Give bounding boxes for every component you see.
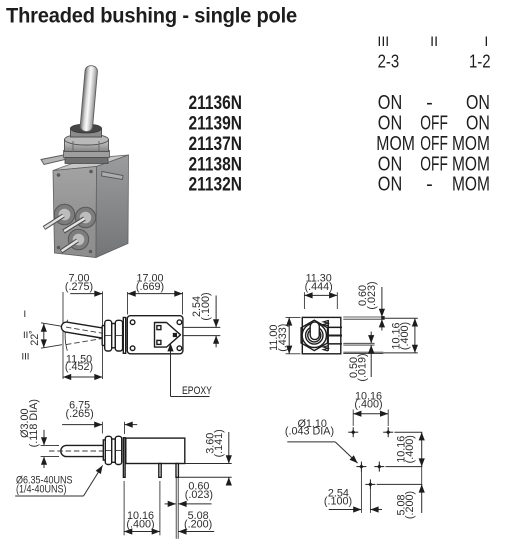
svg-text:(.444): (.444)	[305, 281, 333, 293]
svg-text:(.400): (.400)	[404, 435, 416, 463]
svg-text:(.400): (.400)	[399, 322, 411, 350]
bushing nut 1	[105, 436, 111, 464]
toggle lever (position I)	[61, 322, 103, 338]
dimension 2.54 (.100) vertical	[215, 296, 217, 328]
photo: mounting bracket arm right	[102, 172, 124, 180]
dimension 10.16 (.400) right	[414, 318, 416, 353]
product photo: toggle switch	[41, 65, 129, 257]
svg-text:OFF: OFF	[420, 112, 448, 134]
terminal square top	[157, 326, 161, 330]
extension line at body rear	[182, 292, 184, 315]
body bottom reference line to dimension	[383, 352, 418, 354]
dimension 10.16 (.400) top	[352, 410, 354, 427]
hole bottom-center	[365, 479, 375, 489]
hole mid-right	[374, 462, 384, 472]
22 degree dimension arrows	[43, 324, 45, 348]
hole reference line mid-right	[386, 466, 423, 468]
pin 2	[159, 464, 161, 478]
hole diameter leader line	[287, 441, 335, 443]
hole reference line bottom	[377, 483, 423, 485]
bushing washer	[102, 326, 105, 346]
lever throw arc	[65, 320, 67, 351]
terminal 2 lug (pair of lines)	[343, 342, 374, 344]
photo: solder pin 1	[44, 216, 64, 229]
svg-text:(1/4-40UNS): (1/4-40UNS)	[16, 484, 67, 496]
terminal row reference line lower	[183, 335, 220, 337]
body screw hole bottom-left	[130, 346, 135, 351]
dimension 5.08 (.200) right vertical	[421, 467, 423, 485]
mounting plate / pin 1	[123, 438, 125, 478]
bushing nut 2	[115, 436, 121, 464]
svg-text:OFF: OFF	[420, 133, 448, 155]
svg-text:MOM: MOM	[376, 133, 415, 155]
threaded bushing section	[103, 440, 106, 460]
body screw hole bottom-right	[177, 346, 182, 351]
lever centerline position III (dashed)	[66, 336, 119, 345]
svg-text:III: III	[21, 351, 29, 362]
terminal 3 lug (pair of lines)	[343, 351, 383, 353]
body screw hole top-right	[177, 320, 182, 325]
spine locking teeth top	[323, 321, 328, 326]
svg-text:I: I	[484, 34, 488, 50]
svg-text:(.669): (.669)	[136, 281, 164, 293]
svg-text:(.100): (.100)	[200, 292, 212, 320]
dimension diameter 3.00 (.118 DIA) lever	[41, 444, 59, 446]
svg-text:1-2: 1-2	[469, 51, 491, 72]
svg-text:(.400): (.400)	[126, 518, 154, 530]
svg-text:I: I	[23, 309, 26, 320]
photo: solder pin 3	[61, 241, 78, 252]
terminal square bottom	[157, 340, 161, 344]
PCB HOLE PATTERN drawing (bottom-right)	[285, 391, 422, 520]
svg-text:MOM: MOM	[452, 133, 490, 155]
body screw hole top-left	[130, 320, 135, 325]
svg-text:MOM: MOM	[452, 174, 490, 196]
pin end reference line	[179, 476, 232, 478]
pin 3 extension lines down	[175, 477, 177, 539]
svg-text:21139N: 21139N	[189, 112, 243, 134]
terminal bar 3	[328, 343, 342, 345]
svg-text:III: III	[377, 34, 389, 50]
lever (top view, capsule)	[310, 322, 319, 340]
svg-text:21137N: 21137N	[189, 133, 243, 155]
photo: washer stack	[64, 151, 110, 158]
terminal 1 reference line to dimension	[385, 317, 418, 319]
dimension 2.54 (.100)	[360, 471, 362, 513]
22 degree throw: lower extension line	[41, 345, 62, 349]
SIDE VIEW drawing	[21, 273, 220, 397]
svg-text:22˚: 22˚	[29, 330, 41, 346]
svg-text:21138N: 21138N	[189, 153, 243, 175]
svg-text:2-3: 2-3	[378, 51, 400, 72]
hole reference line top-right	[395, 431, 423, 433]
TOP VIEW drawing	[268, 273, 418, 382]
bushing nut 1	[105, 320, 112, 351]
svg-text:(.400): (.400)	[354, 399, 382, 411]
svg-text:(.043 DIA): (.043 DIA)	[285, 426, 334, 438]
svg-text:(.019): (.019)	[357, 353, 369, 381]
thread spec leader line	[15, 495, 83, 497]
photo: corner screws	[57, 173, 61, 177]
switch body (top view)	[302, 317, 341, 353]
bushing nut 2	[115, 320, 122, 351]
svg-text:ON: ON	[378, 174, 402, 196]
photo: body right side face	[96, 155, 129, 258]
photo: toggle lever	[80, 65, 98, 132]
photo: threaded bushing collar	[71, 128, 102, 137]
terminal 1 end block	[381, 316, 385, 320]
terminal bar 1	[328, 327, 342, 329]
photo: terminal recess circle 3	[68, 229, 88, 249]
pin 3	[176, 464, 178, 478]
switch body (front view)	[126, 438, 185, 463]
dimension 6.75 (.265)	[101, 422, 103, 434]
epoxy seal outline	[155, 323, 181, 348]
EPOXY leader line	[171, 396, 210, 398]
svg-text:(.452): (.452)	[65, 361, 93, 373]
dimension 7.00 (.275)	[70, 293, 102, 295]
svg-text:OFF: OFF	[420, 153, 448, 175]
extension line at lever tip	[62, 292, 64, 379]
terminal bar 2	[328, 335, 342, 337]
hex nut (top view)	[301, 320, 327, 350]
svg-text:MOM: MOM	[452, 153, 490, 175]
spine locking teeth bottom	[323, 346, 328, 351]
dimension 0.60 (.023) pin thickness	[165, 503, 176, 505]
dimension 10.16 (.400) between pin1 and pin2	[124, 531, 160, 533]
photo: body top face	[53, 155, 129, 171]
bushing middle circle	[306, 327, 323, 344]
hole top-right	[383, 427, 393, 437]
svg-text:II: II	[23, 330, 28, 341]
22 degree throw: upper extension line	[41, 323, 62, 327]
photo: hex nut	[65, 140, 109, 152]
bushing ring	[112, 439, 116, 462]
svg-text:(.200): (.200)	[184, 518, 212, 530]
pin 2 extension line	[159, 481, 161, 535]
hole top-left	[348, 427, 358, 437]
svg-text:(.118 DIA): (.118 DIA)	[28, 399, 40, 447]
svg-text:(.023): (.023)	[366, 281, 378, 309]
dimension 11.30 (.444)	[303, 292, 305, 309]
svg-text:-: -	[426, 92, 433, 114]
dimension 0.50 (.019)	[370, 332, 372, 344]
terminal 1 lug (pair of lines)	[343, 316, 381, 318]
extension line at body front	[127, 292, 129, 315]
bushing inner circle	[308, 329, 321, 342]
svg-text:(.141): (.141)	[213, 429, 225, 457]
dimension 17.00 (.669)	[128, 293, 183, 295]
terminal row reference line upper	[183, 326, 220, 328]
svg-text:ON: ON	[466, 92, 490, 114]
svg-text:(.100): (.100)	[324, 495, 352, 507]
svg-text:ON: ON	[466, 112, 490, 134]
photo: terminal recess circle 1	[54, 204, 74, 224]
photo: mounting bracket arm left	[41, 153, 78, 165]
svg-text:ON: ON	[378, 153, 402, 175]
svg-text:Threaded bushing - single pole: Threaded bushing - single pole	[6, 3, 297, 27]
photo: body front face	[53, 167, 97, 258]
bushing ring	[112, 324, 116, 348]
photo: terminal recess circle 2	[75, 207, 95, 227]
svg-text:(.265): (.265)	[65, 408, 93, 420]
terminal square center (filled)	[173, 333, 177, 337]
photo: solder pin 2	[64, 219, 85, 232]
FRONT VIEW drawing (bottom-left)	[15, 399, 232, 539]
svg-text:21136N: 21136N	[189, 92, 243, 114]
switch body (side view)	[127, 316, 183, 354]
svg-text:EPOXY: EPOXY	[182, 385, 212, 397]
dimension 10.16 (.400) right vertical	[421, 432, 423, 466]
body bottom reference line	[185, 463, 232, 465]
dimension 3.60 (.141)	[228, 432, 230, 464]
svg-text:II: II	[430, 34, 438, 50]
svg-text:(.023): (.023)	[185, 489, 213, 501]
svg-text:(.275): (.275)	[65, 281, 93, 293]
bushing mounting plate	[123, 318, 125, 354]
lever centerline position I (dashed)	[66, 327, 120, 336]
dimension 0.60 (.023)	[381, 287, 383, 317]
bushing outer circle	[302, 323, 326, 347]
svg-text:ON: ON	[378, 92, 402, 114]
toggle lever (horizontal)	[61, 445, 104, 456]
pin 1 extension line	[123, 481, 125, 535]
extension line at bushing front	[102, 291, 104, 379]
svg-text:-: -	[426, 174, 433, 196]
svg-text:21132N: 21132N	[189, 174, 243, 196]
svg-text:(.200): (.200)	[404, 491, 416, 519]
dimension 11.50 (.452)	[63, 376, 103, 378]
hole mid-left	[356, 462, 366, 472]
svg-text:(.433): (.433)	[277, 324, 289, 352]
lever centerline (dashed)	[49, 450, 124, 452]
dimension 11.00 (.433)	[286, 316, 301, 318]
dimension 5.08 (.200) pin2 to pin3	[178, 531, 214, 533]
terminal block spine	[327, 320, 329, 351]
svg-text:ON: ON	[378, 112, 402, 134]
